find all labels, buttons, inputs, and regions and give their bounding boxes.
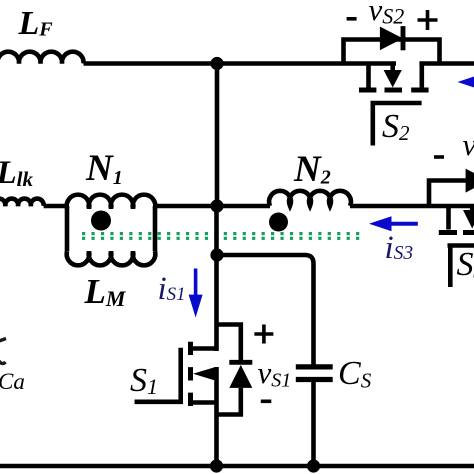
label plus sign of vS1 [254, 325, 273, 344]
wire branch from trunk to capacitor CS [217, 255, 314, 365]
transistor S2 body tick [390, 64, 395, 72]
label minus sign of vS1 [261, 399, 272, 403]
capacitor CS bottom plate [296, 377, 333, 382]
svg-text:vS2: vS2 [369, 0, 405, 29]
inductor LM bottom arches of transformer block [67, 252, 156, 266]
diode D1 loop wire lower from anode to trunk [217, 388, 241, 415]
polarity dot winding N2 [269, 213, 288, 232]
transformer block left edge [65, 206, 70, 252]
wire from Llk to transformer block [44, 204, 67, 209]
diode D2 triangle [380, 27, 403, 51]
junction dot CS lead at bottom rail [307, 459, 320, 472]
transistor S1 source stub [191, 400, 217, 405]
junction dot trunk and CS branch [210, 248, 223, 261]
junction dot trunk at bottom rail [210, 459, 223, 472]
label CCa partial letter strokes at left edge [0, 339, 6, 364]
inductor Llk coil [0, 199, 44, 206]
wire vertical trunk S1 source side down to rail [214, 367, 219, 466]
wire from block to N2 [155, 204, 270, 209]
diode D1 loop wire upper from trunk to cathode [217, 325, 241, 361]
diode D1 cathode bar [229, 360, 252, 365]
transistor S2 drain stub [419, 64, 424, 88]
current arrow at top right edge [458, 75, 474, 90]
diode D3 triangle [466, 169, 474, 193]
svg-text:S3: S3 [457, 246, 474, 283]
transistor S3 source stub [446, 206, 451, 230]
polarity dot winding N1 [91, 211, 111, 231]
core line dotted green rows [82, 232, 359, 240]
winding N2 coil [269, 191, 351, 206]
transistor S2 channel segments [359, 88, 429, 93]
transistor S2 gate [373, 103, 422, 146]
diode D1 triangle [229, 365, 252, 388]
wire vertical trunk upper from top junction to transformer wire [215, 64, 220, 207]
transistor S3 body tick [470, 206, 474, 211]
diode D2 cathode bar [401, 26, 406, 50]
transistor S2 source stub [366, 64, 371, 88]
diode D3 loop wires over S3 [429, 181, 474, 207]
transistor S3 channel segments [439, 230, 474, 235]
capacitor CS top plate [296, 364, 333, 369]
inductor LF coil [0, 52, 84, 64]
transistor S3 body diode triangle [463, 210, 474, 229]
wire vertical trunk S1 drain side [214, 206, 219, 351]
svg-text:v: v [463, 127, 474, 162]
svg-text:Ca: Ca [0, 369, 25, 394]
transistor S1 drain stub [191, 346, 217, 351]
wire capacitor CS bottom lead [311, 382, 316, 466]
current arrow iS3 [369, 216, 418, 231]
label plus sign of vS2 [418, 10, 438, 30]
junction dot transformer wire and trunk [210, 199, 223, 212]
label minus sign of vS3 [434, 155, 444, 159]
wire bottom rail [0, 464, 474, 469]
wire top right segment from S2 drain to right edge [419, 61, 474, 66]
current arrow iS1 [189, 269, 203, 318]
transistor S1 channel segments [188, 342, 193, 406]
transistor S3 gate [448, 246, 474, 288]
transistor S2 body diode triangle [384, 70, 402, 88]
diode D2 loop wires over S2 [344, 40, 440, 64]
winding N1 top arches of transformer block [67, 195, 156, 209]
wire top horizontal from LF to S2 [84, 61, 397, 66]
junction dot top at LF wire and trunk [210, 57, 223, 70]
transformer block right edge [153, 206, 158, 252]
label minus sign of vS2 [347, 17, 357, 21]
transistor S1 body arrow [193, 367, 215, 380]
wire from N2 to S3 and right edge [350, 204, 474, 209]
transistor S1 gate [135, 348, 181, 402]
